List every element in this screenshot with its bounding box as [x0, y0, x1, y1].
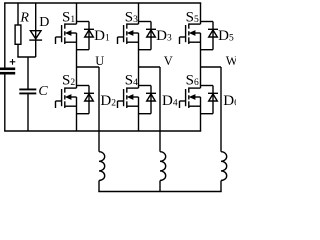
capacitor C plates — [19, 88, 36, 90]
svg-text:V: V — [164, 54, 173, 68]
svg-text:D: D — [39, 15, 49, 30]
wire R-D junction connector — [17, 56, 35, 58]
diode D6 (antiparallel) — [201, 85, 214, 87]
wire phase W vertical to winding — [220, 67, 222, 152]
resistor R body — [15, 25, 21, 44]
wire leg 2 drain of S3 to top bus — [138, 3, 140, 24]
wire top DC+ bus — [4, 2, 201, 4]
wire bottom DC- bus — [4, 130, 201, 132]
wire leg 1 drain of S2 — [76, 67, 78, 88]
diode D5 (antiparallel) — [201, 21, 214, 23]
wire phase output node 3 horizontal — [201, 66, 222, 68]
wire down to capacitor C — [27, 57, 29, 89]
diode D4 (antiparallel) — [139, 85, 152, 87]
wire left DC rail lower segment — [4, 75, 6, 132]
wire leg 2 source of S3 to phase node — [138, 33, 140, 67]
transistor S6 (MOSFET) — [179, 101, 181, 108]
transistor S2 (MOSFET) — [55, 101, 57, 108]
wire leg 1 drain of S1 to top bus — [76, 3, 78, 24]
capacitor DC source (electrolytic) plates — [0, 68, 15, 71]
diode D cathode bar — [29, 39, 42, 41]
wire leg 1 source of S1 to phase node — [76, 33, 78, 67]
wire winding W to star point — [220, 181, 222, 192]
svg-text:U: U — [95, 54, 104, 68]
wire leg 3 source of S6 to bottom bus — [200, 97, 202, 131]
transistor S1 (MOSFET) — [55, 37, 57, 44]
wire diode D top lead — [35, 3, 37, 57]
diode D3 (antiparallel) — [139, 21, 152, 23]
diode D triangle — [30, 31, 41, 39]
svg-text:R: R — [19, 11, 29, 26]
wire leg 3 drain of S6 — [200, 67, 202, 88]
label + (source polarity) — [10, 61, 16, 63]
transistor S5 (MOSFET) — [179, 37, 181, 44]
wire capacitor C to bottom bus — [27, 94, 29, 131]
wire resistor R bottom lead — [17, 44, 19, 57]
svg-text:C: C — [38, 84, 48, 99]
wire phase U vertical to winding — [98, 67, 100, 152]
diode D2 (antiparallel) — [77, 85, 90, 87]
wire phase output node 1 horizontal — [77, 66, 100, 68]
wire leg 3 source of S5 to phase node — [200, 33, 202, 67]
wire phase V vertical to winding — [159, 67, 161, 152]
diode D1 (antiparallel) — [77, 21, 90, 23]
wire leg 2 source of S4 to bottom bus — [138, 97, 140, 131]
wire resistor R top lead — [17, 3, 19, 25]
inductor motor winding V — [160, 152, 166, 181]
wire left DC rail upper segment — [4, 3, 6, 68]
wire leg 2 drain of S4 — [138, 67, 140, 88]
wire leg 1 source of S2 to bottom bus — [76, 97, 78, 131]
inductor motor winding W — [221, 152, 227, 181]
wire leg 3 drain of S5 to top bus — [200, 3, 202, 24]
svg-text:D6: D6 — [223, 93, 236, 109]
transistor S3 (MOSFET) — [117, 37, 119, 44]
svg-text:W: W — [226, 54, 236, 68]
wire winding U to star point — [98, 181, 100, 192]
wire winding V to star point — [159, 181, 161, 192]
transistor S4 (MOSFET) — [117, 101, 119, 108]
wire phase output node 2 horizontal — [139, 66, 161, 68]
wire star-point connector — [98, 191, 221, 193]
inductor motor winding U — [99, 152, 105, 181]
